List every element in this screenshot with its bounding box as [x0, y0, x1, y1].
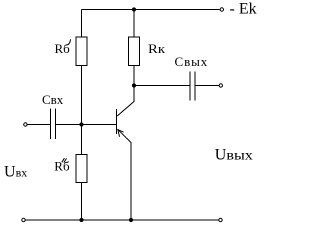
svg-text:Свых: Свых: [175, 54, 209, 69]
wire Rк bottom lead to collector node: [133, 66, 135, 86]
terminal bottom right: [219, 218, 222, 221]
node junction dot base: [79, 122, 83, 126]
svg-text:- Ek: - Ek: [230, 1, 257, 18]
wire input terminal to Cвх: [27, 124, 50, 126]
wire Свых to output terminal: [196, 85, 219, 87]
node junction dot bottom rail / emitter: [129, 218, 133, 222]
capacitor Свх: [51, 109, 56, 140]
resistor Rб'': [76, 155, 87, 183]
svg-text:Rк: Rк: [148, 41, 166, 56]
transistor VT1 emitter arrow (PNP, pointing into base): [118, 130, 124, 137]
transistor VT1 base bar: [116, 109, 118, 134]
wire Rб'' bottom lead to bottom rail: [81, 183, 83, 221]
svg-text:Uвх: Uвх: [4, 164, 27, 181]
svg-text:Свх: Свх: [42, 92, 64, 107]
wire base node down to Rб'': [81, 125, 83, 155]
wire collector node to Свых: [134, 85, 190, 87]
terminal input: [24, 123, 27, 126]
wire collector node to transistor collector: [117, 86, 134, 117]
wire Cвх to base: [56, 124, 117, 126]
wire bottom rail: [25, 219, 218, 221]
node junction dot bottom rail / Rб'': [79, 218, 83, 222]
transistor VT1 emitter: [118, 129, 132, 220]
wire top rail: [82, 9, 220, 11]
terminal output: [219, 84, 222, 87]
wire Rк top lead: [133, 10, 135, 38]
resistor Rб': [76, 37, 87, 66]
wire Rб' bottom lead to base node: [81, 66, 83, 125]
terminal -Ek: [220, 8, 223, 11]
label Rб'' double prime mark: [62, 158, 67, 162]
svg-text:Rб: Rб: [55, 41, 71, 56]
node junction dot top rail / Rк: [132, 7, 136, 11]
wire left branch upper (top rail to Rb1): [81, 10, 83, 38]
capacitor Свых: [190, 72, 195, 101]
terminal bottom left: [22, 218, 25, 221]
svg-text:Uвых: Uвых: [215, 147, 253, 164]
node junction dot collector: [132, 83, 136, 87]
resistor Rк: [129, 37, 140, 66]
label Rб' prime mark: [68, 39, 71, 44]
